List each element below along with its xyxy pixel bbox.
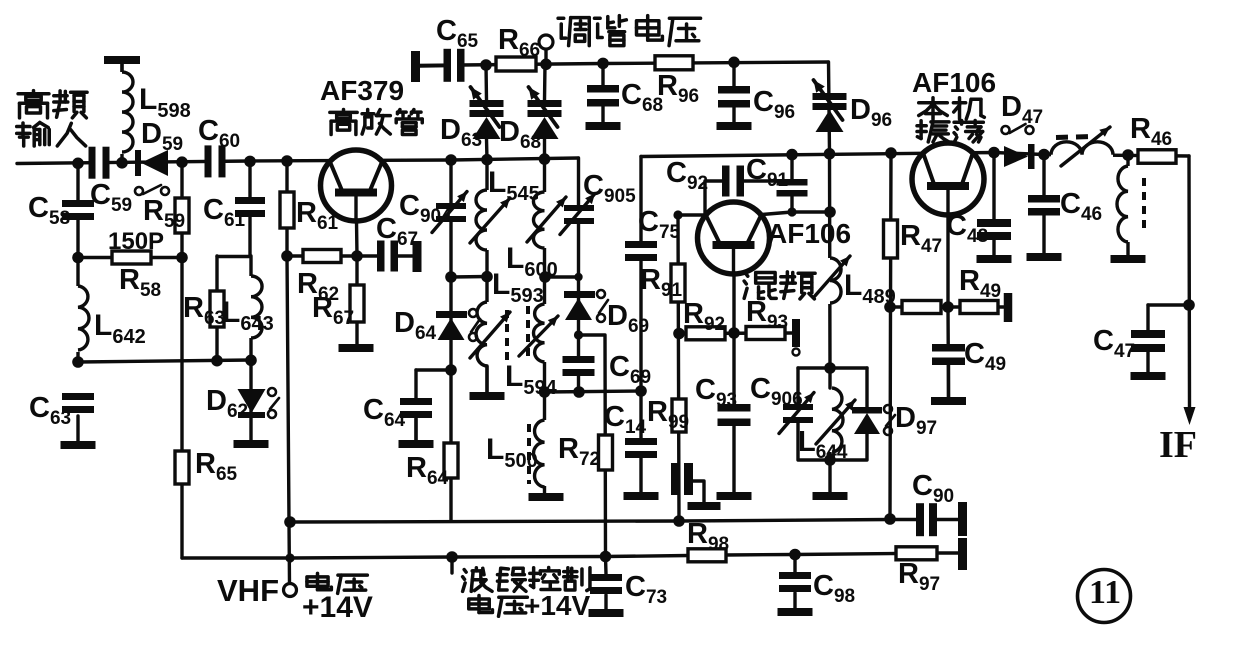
inductor L594 variable with core xyxy=(505,304,558,399)
resistor R97 xyxy=(896,547,940,595)
ground below R67 xyxy=(339,344,374,352)
wire R63 stub xyxy=(217,256,250,361)
wire C93 column xyxy=(732,333,735,492)
VHF +14V terminal xyxy=(284,584,297,597)
node y277-right1 xyxy=(539,271,551,283)
node main-R61 xyxy=(281,155,293,167)
wire L643 D62 column xyxy=(249,256,252,440)
node y277-left2 xyxy=(481,271,493,283)
inductor L489 variable xyxy=(814,256,896,308)
wire main signal line left section xyxy=(17,158,578,164)
trimmer C905 xyxy=(560,170,636,235)
capacitor C59 xyxy=(89,147,133,216)
node bus2-C98 xyxy=(789,549,801,561)
wire C75 C14 column xyxy=(639,157,642,493)
wire C60 C61 column xyxy=(248,161,251,256)
feedthrough right of C67 xyxy=(413,241,422,272)
text AF379 RF amplifier xyxy=(320,75,422,135)
node R58-left xyxy=(72,252,84,264)
capacitor C48 xyxy=(946,210,1011,247)
node L489-C91 row xyxy=(824,206,836,218)
svg-text:+14V: +14V xyxy=(302,591,373,624)
node main-R59 xyxy=(176,156,188,168)
capacitor C46 xyxy=(1028,188,1102,225)
wire C91 column xyxy=(762,154,830,215)
svg-text:IF: IF xyxy=(1159,424,1197,466)
varactor D63 xyxy=(440,65,504,160)
text RF input xyxy=(17,91,87,146)
node rail-C48 xyxy=(988,147,1000,159)
text tuning voltage xyxy=(558,16,700,46)
resistor R58 xyxy=(112,251,161,301)
resistor R49a xyxy=(902,301,941,314)
varactor D68 xyxy=(499,64,562,159)
wire mixer-oscillator rail xyxy=(641,153,1189,157)
wire C904 D64 column xyxy=(416,160,451,521)
wire base row R62 C67 xyxy=(287,254,414,257)
node y392-C75 xyxy=(635,385,647,397)
wire C49 column xyxy=(946,307,950,397)
feedthrough terminal C90 xyxy=(958,502,967,536)
ground below tank xyxy=(813,492,848,500)
wire IF transformer secondary column xyxy=(1126,155,1129,255)
node rail-C68 xyxy=(597,58,609,70)
node bus2-C73 xyxy=(600,551,612,563)
wire C98 column xyxy=(793,555,796,573)
resistor R63 xyxy=(183,291,225,329)
text VHF xyxy=(217,573,279,608)
node D69-C69 xyxy=(574,330,583,339)
wire R72 branch xyxy=(579,335,606,557)
node main-C904 xyxy=(445,154,457,166)
wire D96 L489 column xyxy=(828,153,832,368)
node IF-C47 xyxy=(1183,299,1195,311)
feedthrough left of C65 xyxy=(411,51,444,82)
wire L598 column xyxy=(120,64,123,163)
svg-text:AF106: AF106 xyxy=(767,218,851,249)
inductor L598 xyxy=(116,72,191,154)
resistor R49 xyxy=(959,265,1001,314)
node bus361-R63 xyxy=(211,355,223,367)
capacitor C73 xyxy=(590,571,667,609)
wire R91 R99 column xyxy=(678,215,679,521)
node R58-right xyxy=(176,252,188,264)
capacitor C60 xyxy=(198,115,240,177)
feedthrough capacitor below R99 xyxy=(671,463,693,495)
capacitor C65 xyxy=(436,15,479,82)
text voltage +14V xyxy=(302,573,373,624)
node rail-R47 xyxy=(885,147,897,159)
ground below IF coil xyxy=(1111,255,1146,263)
wire AF106 mixer stem xyxy=(732,274,735,333)
node R47-R49 xyxy=(884,301,896,313)
capacitor C49 xyxy=(932,338,1006,397)
wire band control bus xyxy=(182,553,958,558)
ground below L500 xyxy=(529,493,564,501)
text AF106 local oscillator xyxy=(912,67,996,142)
wire mixer base node xyxy=(678,181,722,215)
diode D97 with switch mark xyxy=(852,402,937,439)
wire R58 row xyxy=(78,256,182,259)
node main-L598 xyxy=(116,157,128,169)
node rail-C46 xyxy=(1038,149,1050,161)
switch contact above R59 xyxy=(135,185,169,195)
capacitor C67 xyxy=(376,213,418,272)
wire junction row y392 xyxy=(545,391,642,392)
ground below L593 xyxy=(470,366,505,400)
svg-text:+14V: +14V xyxy=(524,590,590,621)
svg-text:VHF: VHF xyxy=(217,573,279,608)
node bus1-R99 xyxy=(673,515,685,527)
resistor R47 xyxy=(884,220,943,258)
node y277-left1 xyxy=(445,271,457,283)
ground below C68 xyxy=(586,122,621,130)
diode D62 with switch mark xyxy=(206,385,279,422)
ground below C96 xyxy=(717,122,752,130)
wire AF106 osc stem xyxy=(946,215,949,307)
inductor L642 xyxy=(72,286,146,352)
transistor Q3 AF106 oscillator xyxy=(912,143,984,216)
node C91-bottom xyxy=(787,207,796,216)
node main-C61 xyxy=(244,156,256,168)
capacitor C93 xyxy=(695,374,751,426)
capacitor C90 series on bus xyxy=(912,470,954,536)
wire output corner down xyxy=(1187,156,1191,407)
resistor R92 xyxy=(683,298,725,340)
feedthrough right of R93 xyxy=(792,319,800,356)
wire C58 L642 column xyxy=(76,163,79,362)
node rail-D96 xyxy=(824,148,836,160)
inductor L500 with core xyxy=(486,420,550,487)
node rail-D63 xyxy=(480,59,492,71)
wire C48 column xyxy=(992,153,995,256)
node C67-R67 xyxy=(351,250,363,262)
wire L600 L594 L500 column xyxy=(543,159,546,493)
capacitor C98 xyxy=(779,570,855,608)
capacitor C14 xyxy=(604,401,657,458)
node main-C58 xyxy=(72,158,84,170)
capacitor C61 xyxy=(203,194,265,231)
wire R49 row xyxy=(890,305,1004,308)
diode D47 xyxy=(1001,91,1043,169)
ground below C47 xyxy=(1131,372,1166,380)
tuning voltage terminal xyxy=(539,35,553,70)
feedthrough right of R49 xyxy=(1004,293,1013,322)
capacitor C68 xyxy=(587,64,663,122)
wire +14V supply bus xyxy=(290,520,958,523)
wire R47 column xyxy=(890,153,891,519)
text band control voltage +14V xyxy=(463,568,591,621)
capacitor C64 xyxy=(363,394,432,440)
node bus1-R47 xyxy=(884,513,896,525)
resistor R98 xyxy=(687,518,729,562)
IF transformer secondary coil with core xyxy=(1117,166,1144,242)
svg-text:AF379: AF379 xyxy=(320,75,404,106)
node bus361-D62 xyxy=(245,355,257,367)
resistor R62 xyxy=(297,250,341,306)
ground below C63 xyxy=(61,441,96,449)
text AF106 mixer xyxy=(744,218,851,299)
value 150P xyxy=(108,228,164,255)
resistor R64 xyxy=(406,443,458,489)
wire C92 to C91 node xyxy=(744,179,792,182)
node R49-C49 xyxy=(942,301,954,313)
node C64 stub xyxy=(445,364,457,376)
node bus2-band xyxy=(446,551,458,563)
wire C905 D69 column xyxy=(577,158,580,392)
resistor R93 xyxy=(746,296,788,340)
wire junction row y277 left xyxy=(451,275,488,279)
node tank top xyxy=(824,362,836,374)
ground below C64 xyxy=(399,440,434,448)
varactor D96 xyxy=(813,80,893,132)
ground below D62 xyxy=(234,440,269,448)
text IF xyxy=(1159,424,1197,466)
wire R61 +14V column xyxy=(287,161,290,584)
wire L545 L593 column xyxy=(485,160,488,392)
resistor R46 xyxy=(1130,113,1176,163)
node main-D68 xyxy=(539,153,551,165)
ground at R99 feedthrough xyxy=(688,502,721,510)
node y392-C69 xyxy=(573,386,585,398)
diode D69 with switch mark xyxy=(564,290,649,337)
trimmer C904 xyxy=(399,190,467,233)
svg-text:AF106: AF106 xyxy=(912,67,996,98)
capacitor C69 xyxy=(563,351,652,388)
inductor L643 xyxy=(222,276,274,338)
node mixer R91 top xyxy=(673,210,682,219)
transistor Q2 AF106 mixer xyxy=(698,202,770,275)
node rail-C91 xyxy=(786,149,798,161)
diode D64 with switch mark xyxy=(394,307,480,344)
node bus361-C63 xyxy=(72,356,84,368)
wire R59 R65 column xyxy=(180,162,183,558)
wire R99 feedthrough ground stub xyxy=(692,481,704,502)
resistor R72 xyxy=(558,433,613,470)
page number 11 xyxy=(1078,570,1131,623)
variable inductor output xyxy=(1051,127,1113,166)
diode D59 xyxy=(135,118,183,176)
wire ground bus y361 xyxy=(78,360,251,362)
node bus1-left xyxy=(284,516,296,528)
wire R92 R93 row xyxy=(679,331,793,335)
wire junction row y277 right xyxy=(545,275,579,278)
antenna bar above L598 xyxy=(104,56,140,72)
ground below C93 xyxy=(717,492,752,500)
resistor R67 xyxy=(312,285,364,329)
feedthrough terminal R97 xyxy=(958,538,967,570)
node R62 xyxy=(281,250,293,262)
node tank bottom xyxy=(824,454,836,466)
ground below C73 xyxy=(589,609,624,617)
capacitor C58 xyxy=(28,192,94,229)
wire oscillator tank box xyxy=(798,368,867,492)
trimmer C906 in tank xyxy=(750,373,814,434)
svg-text:11: 11 xyxy=(1089,574,1121,611)
ground below C48 xyxy=(977,255,1012,263)
resistor R99 xyxy=(647,396,689,433)
inductor L545 variable xyxy=(470,166,540,250)
capacitor C91 xyxy=(746,154,808,197)
wire tuning terminal stem xyxy=(544,49,547,64)
node y277-right2 xyxy=(574,273,582,281)
inductor L600 variable xyxy=(506,192,566,281)
ground below C14 xyxy=(624,492,659,500)
resistor R65 xyxy=(175,448,238,485)
resistor R66 xyxy=(496,24,540,71)
ground below C49 xyxy=(931,397,966,405)
node y392-L594 xyxy=(539,386,551,398)
wire tuning voltage rail xyxy=(415,62,828,66)
resistor R96 xyxy=(655,56,699,107)
inductor L593 variable xyxy=(470,268,544,366)
capacitor C92 xyxy=(666,157,744,197)
transistor Q1 AF379 xyxy=(321,150,392,222)
capacitor C96 xyxy=(718,57,795,124)
ground below C98 xyxy=(778,608,813,616)
wire C47 stub xyxy=(1148,305,1189,330)
node R91-R92 xyxy=(673,328,685,340)
node rail-IFcoil xyxy=(1122,149,1134,161)
wire C73 column xyxy=(604,557,608,575)
wire D96 column top xyxy=(829,62,830,153)
wire C46 column xyxy=(1042,155,1045,254)
node mixer emitter xyxy=(728,327,740,339)
node bus2-term xyxy=(285,553,294,562)
ground below C46 xyxy=(1027,253,1062,261)
IF output arrow xyxy=(1184,407,1196,425)
capacitor C63 xyxy=(29,392,94,441)
node main-D63 xyxy=(481,154,493,166)
resistor R61 xyxy=(280,192,339,234)
inductor L644 variable in tank xyxy=(798,388,855,463)
resistor R59 xyxy=(143,195,189,233)
capacitor C47 xyxy=(1093,325,1165,372)
wire band control stub xyxy=(450,557,453,573)
capacitor C75 xyxy=(625,206,681,261)
wire AF379 stem R67 xyxy=(355,221,359,344)
switch contact above D47 xyxy=(1002,124,1034,134)
resistor R91 xyxy=(640,264,685,302)
